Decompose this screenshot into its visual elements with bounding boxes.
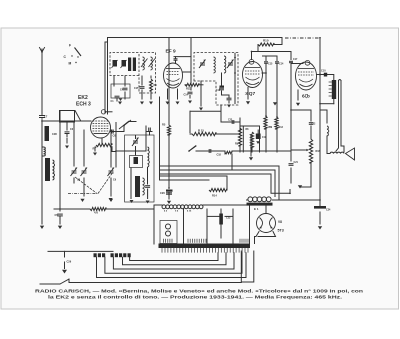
svg-text:M: M (69, 62, 72, 66)
svg-text:C16: C16 (216, 90, 221, 92)
svg-text:R10: R10 (263, 39, 269, 43)
svg-text:C22: C22 (311, 123, 316, 126)
svg-text:C20: C20 (160, 191, 165, 195)
svg-text:F: F (69, 44, 71, 48)
svg-text:EF 9: EF 9 (166, 49, 176, 55)
svg-text:C23: C23 (228, 120, 233, 122)
svg-text:5T3: 5T3 (278, 229, 284, 233)
svg-text:C24: C24 (326, 209, 331, 212)
svg-text:E 1: E 1 (254, 207, 259, 211)
svg-text:4.6: 4.6 (94, 211, 98, 215)
svg-text:R14: R14 (212, 194, 217, 198)
svg-text:R13: R13 (279, 126, 284, 129)
svg-text:6ζb: 6ζb (302, 93, 310, 99)
svg-text:R11: R11 (186, 87, 191, 91)
svg-text:C2R: C2R (52, 133, 57, 136)
svg-text:ECH 3: ECH 3 (76, 102, 91, 108)
svg-text:EK2: EK2 (78, 95, 88, 101)
svg-text:C17: C17 (293, 58, 298, 61)
svg-text:C15: C15 (134, 87, 139, 90)
svg-text:C15: C15 (268, 63, 273, 66)
svg-text:C19: C19 (262, 137, 267, 139)
svg-text:R16: R16 (316, 150, 321, 153)
svg-text:C29: C29 (67, 261, 72, 264)
svg-text:15M: 15M (268, 126, 273, 129)
svg-text:C23: C23 (226, 217, 231, 220)
svg-text::6Q7: :6Q7 (245, 91, 256, 97)
svg-text:R5: R5 (162, 123, 166, 127)
svg-text:C5: C5 (55, 213, 59, 217)
svg-text:Rb: Rb (235, 143, 239, 146)
svg-text:C18: C18 (217, 154, 222, 157)
svg-text:C21: C21 (294, 161, 299, 164)
svg-text:R7: R7 (93, 147, 97, 151)
svg-text:C14: C14 (279, 63, 284, 66)
svg-text:C10: C10 (321, 70, 326, 73)
svg-text:C6: C6 (113, 134, 117, 138)
svg-text:C7: C7 (44, 115, 48, 119)
svg-text:V8: V8 (278, 220, 282, 224)
svg-text:R 15: R 15 (198, 129, 204, 133)
svg-text:C14: C14 (184, 94, 189, 97)
svg-text:RADIO CARISCH, — Mod. «Bernina: RADIO CARISCH, — Mod. «Bernina, Molise e… (35, 289, 363, 295)
svg-text:la EK2 e senza il controllo di: la EK2 e senza il controllo di tono. — P… (48, 295, 342, 301)
